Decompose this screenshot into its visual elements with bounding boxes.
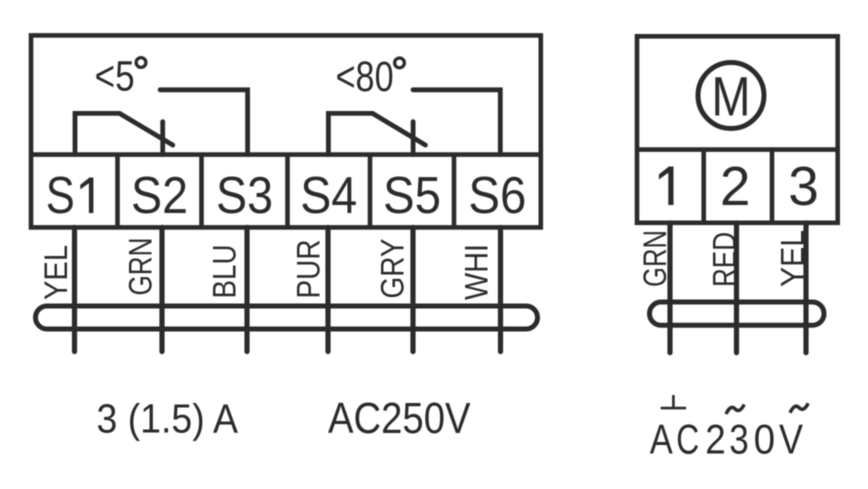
svg-text:3: 3 (729, 416, 749, 463)
svg-text:<80: <80 (336, 53, 394, 101)
svg-text:GRN: GRN (637, 230, 673, 287)
wires from right terminals (670, 223, 806, 353)
svg-text:C: C (676, 416, 699, 463)
svg-text:2: 2 (720, 155, 751, 217)
motor M1 circle (698, 63, 764, 129)
degree mark of <80 label (395, 58, 405, 68)
svg-text:YEL: YEL (775, 230, 811, 287)
left actuator aux-switch block outline (31, 35, 541, 227)
svg-text:S5: S5 (383, 167, 441, 225)
terminal 1 (drawn Arial-style) (659, 167, 674, 206)
switch Sa contact tick (S2) (160, 122, 165, 155)
svg-text:3 (1.5) A: 3 (1.5) A (97, 396, 239, 442)
cable sheath (right block) (650, 302, 825, 325)
svg-text:V: V (779, 416, 803, 463)
terminal divider S1/S2 (115, 155, 120, 228)
svg-text:<5: <5 (95, 53, 135, 101)
AC tilde over "V" (790, 403, 808, 413)
wire S4 (PUR) (325, 227, 330, 351)
wire S2 (GRN) (159, 227, 164, 351)
switch Sb pole arm from S4 (328, 113, 425, 154)
supply label AC230V (spaced letters) (650, 416, 803, 463)
wire S3 (BLU) (244, 227, 249, 351)
terminal divider S2/S3 (199, 155, 204, 228)
earth / ground symbol (661, 395, 686, 408)
wire S6 (WHI) (498, 227, 503, 351)
svg-text:BLU: BLU (207, 245, 243, 299)
terminal divider 2/3 (770, 150, 775, 223)
AC tilde over "2" (726, 405, 744, 415)
wire S1 (YEL) (72, 227, 77, 351)
wire 2 (RED) (734, 223, 739, 353)
svg-text:S2: S2 (131, 167, 188, 225)
svg-text:0: 0 (754, 416, 776, 463)
svg-text:A: A (650, 416, 673, 463)
switch Sa pole arm from S1 (75, 113, 173, 154)
right motor block outline (637, 36, 838, 223)
terminal divider S4/S5 (368, 155, 373, 228)
svg-text:S: S (46, 167, 75, 225)
switch Sa throw arm to S3 (160, 90, 248, 155)
svg-text:S6: S6 (468, 167, 526, 225)
svg-text:2: 2 (705, 416, 726, 463)
svg-text:YEL: YEL (38, 245, 74, 300)
svg-text:S3: S3 (216, 167, 273, 225)
auxiliary switch Sa (pole S1) (75, 90, 248, 155)
wire 3 (YEL) (803, 223, 808, 353)
terminal strip top line (right block) (637, 147, 838, 152)
svg-text:S4: S4 (300, 167, 357, 225)
terminal divider S5/S6 (452, 155, 457, 228)
svg-text:GRN: GRN (123, 238, 159, 296)
svg-text:WHI: WHI (459, 244, 495, 300)
degree mark of <5 label (136, 58, 146, 68)
cable sheath (left block) (36, 306, 538, 329)
wires from left terminals (75, 227, 501, 351)
switch Sb contact tick (S5) (411, 122, 416, 155)
terminal divider 1/2 (701, 150, 706, 223)
wire S5 (GRY) (410, 227, 415, 351)
svg-text:GRY: GRY (374, 239, 410, 299)
terminal divider S3/S4 (285, 155, 290, 228)
svg-text:RED: RED (706, 232, 742, 287)
auxiliary switch Sb (pole S4) (328, 90, 500, 155)
switch Sb throw arm to S6 (413, 90, 500, 155)
svg-text:3: 3 (788, 155, 819, 217)
wire 1 (GRN) (667, 223, 672, 353)
svg-text:AC250V: AC250V (328, 395, 471, 443)
terminal strip top line (left block) (31, 152, 541, 157)
svg-text:M: M (712, 65, 751, 128)
svg-text:PUR: PUR (291, 240, 327, 299)
